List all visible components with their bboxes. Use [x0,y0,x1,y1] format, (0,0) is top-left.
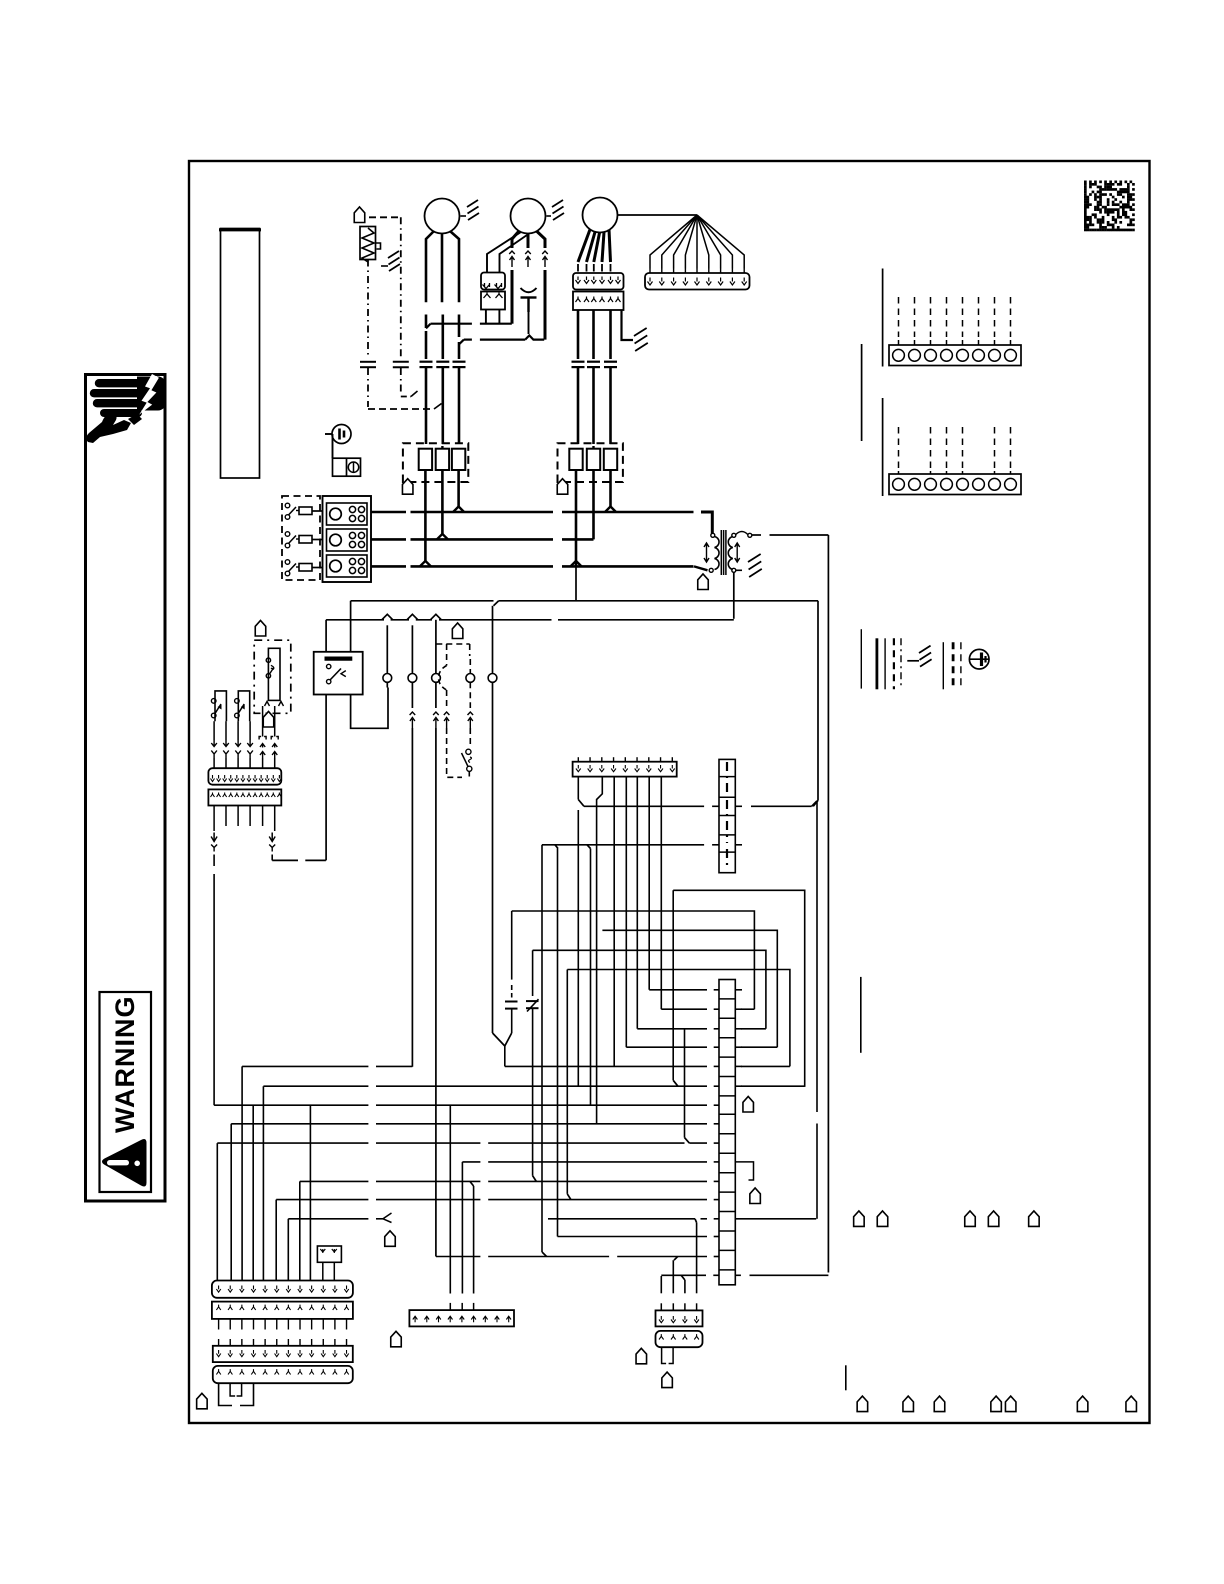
row y806 to strip [584,805,704,807]
warning inner box [100,992,152,1192]
flag above J2 [385,1231,396,1247]
legend low voltage wires [942,642,944,689]
transformer secondary terminals [732,533,736,537]
flag bottom-right below [662,1372,673,1388]
bottom flags row [857,1396,868,1412]
control line A drop right [817,601,819,801]
relay U-link lower [272,859,298,861]
rect wire U5 [567,970,790,1067]
contactor box [323,496,372,582]
flags above strip right [743,1097,754,1113]
terminal strip chain lower [719,980,735,1285]
row y1276 [661,1274,706,1276]
flag below transformer [698,574,709,590]
flag below interlock box [263,712,274,728]
flag above interlock box [255,621,266,637]
motor M1 wires [426,232,434,329]
wire A arrow [213,833,215,841]
contactor poles [327,503,368,525]
transformer secondary coil [728,537,733,570]
rect wire U2 [511,911,513,980]
flag below F2 [557,479,568,495]
transformer arrows [704,543,709,562]
right vertical x882 upper [882,269,884,367]
control line B [326,619,384,621]
row y1237 [558,1236,708,1238]
row y1143 [217,1142,368,1144]
transformer primary coil [715,537,720,570]
right vertical x882 lower [882,398,884,496]
cap break on dashed wire 2 [393,361,409,363]
motor M2 fan wires [512,231,519,248]
isolated vertical x845 [845,1365,847,1390]
row y1086 [263,1085,368,1087]
flag on control line B [452,623,463,639]
bottom-right lower wires [662,1347,667,1363]
dash-dot enclosure right wire [400,217,402,358]
bottom-middle connector J2 [409,1310,514,1326]
capacitor on drop x511 [511,985,513,998]
terminal strip chain upper [719,759,735,872]
row y845 from right [542,844,704,846]
svg-text:WARNING: WARNING [110,996,140,1134]
motor M3 fan wires [578,230,590,263]
vertical to bottom connector x450 [449,1105,451,1293]
row y1029 [637,1028,707,1030]
wire F arrow [271,833,273,841]
legend rectangle [221,229,260,479]
drop x590 [587,845,591,849]
fuses F1 [419,449,432,470]
legend line voltage wires [860,629,862,688]
row y1047 [626,1046,707,1048]
bus row L1 to transformer [701,512,712,534]
transformer secondary top wire [752,534,761,536]
heater resistor R-HTR [360,227,376,260]
M3 connector block [573,273,624,290]
interlock contacts [265,702,270,707]
J2 stubs [449,1303,451,1310]
M2 connector block [481,273,505,290]
J1 wires [577,777,579,800]
drop x542 [541,845,543,1252]
M3 pin stubs [577,264,579,272]
harness fan wires [650,215,697,269]
warning triangle [102,1139,147,1187]
dash-dot enclosure left wire [367,260,369,359]
ground at motor M2 [547,215,552,217]
link M1 to M2 block [426,324,431,329]
flag bottom-right left [636,1348,647,1364]
relay switch [327,664,331,668]
disconnect switches [285,503,290,508]
ground at motor M1 [461,215,467,217]
legend ground symbol [907,660,919,662]
left mesh verticals [241,1066,243,1280]
drop x555 [555,845,558,849]
warning label outer box [86,375,166,1202]
flag below J2 [391,1331,402,1347]
bottom-left connector block 4 [213,1366,353,1383]
M2 plug arrows [509,251,515,254]
cap break on dashed wire 1 [360,361,376,363]
Y merge caps [493,1033,505,1046]
row y990 [649,989,707,991]
row y1162 bracket right [735,1162,753,1180]
left connector block lower wires [225,806,227,827]
row y1199 [276,1199,368,1201]
lug wire [332,434,334,458]
row y1162 [462,1161,480,1163]
aux device box [333,458,361,476]
control line A [351,600,494,602]
row y1219 left with arrow [288,1218,368,1220]
datamatrix barcode [1084,181,1135,232]
rect wire U3 [602,930,777,1047]
right vertical x861 [861,344,863,441]
dash-dot enclosure bottom edge [368,408,434,410]
M3 lower wires [577,310,580,359]
circle3 wire corner at bottom [435,1256,437,1258]
legend earth symbol [969,649,989,669]
motor M2 [511,199,546,234]
bottom-left connector block 3 [213,1346,353,1362]
bottom-left bracket [219,1383,232,1405]
M2 connector leads [487,232,521,273]
cap breaks M1 wires [425,331,428,359]
left connector block 1 [208,768,281,785]
row y1105 [214,1104,368,1106]
heater tab [376,243,381,249]
bottom-left stubs [230,1384,235,1396]
interlock inner frame [268,648,280,700]
motor M1 [425,199,460,234]
circle terminal 5 [488,674,497,683]
transformer core [720,530,722,575]
left connector block 2 [208,789,281,805]
M3 stub to ground [622,310,634,340]
transformer T1 primary terminals [711,533,715,537]
vertical to bottom connector x473 [470,1181,474,1186]
disconnect dashed box [282,496,320,580]
arrow on wire 2 [410,712,416,715]
strip chain dash-dot marks upper [726,762,728,795]
bottom-right connector block 1 [656,1310,703,1326]
dash-dot branch [436,643,469,645]
terminal strip TB2 [889,474,1021,495]
motor M3 [583,198,618,233]
bottom-left connector block 2 [212,1302,353,1319]
circle terminal 2 [408,674,417,683]
thermal fuse on drop x532 [532,950,534,996]
ground lug [332,425,351,444]
bottom-right connector wires [660,1276,662,1293]
M2 capacitor [521,288,537,292]
dash-dot enclosure top edge [369,216,401,218]
rect wire U4 [533,950,766,1029]
door switch 1 [215,691,226,721]
row y1219 right [548,1218,695,1220]
flag above heater [354,207,365,223]
row y1066 [242,1065,368,1067]
isolated vertical x860 [860,977,862,1053]
mid flags row [854,1211,865,1227]
bottom-left connector block 1 [212,1281,353,1298]
bus row L3 [371,565,406,568]
relay outputs [325,695,327,861]
fuse block F2 dashed box [558,443,623,482]
relay box [314,652,363,695]
vertical to bottom connector x462 [461,1162,463,1294]
circle terminal 3 [432,674,441,683]
door switch 2 [238,691,249,721]
right riser x817 [816,801,818,1112]
row y1181 [300,1180,369,1182]
row y1257 [436,1256,480,1258]
warning hand-shock icon [95,379,141,387]
connector pin symbols row [213,721,215,740]
fuse block F1 dashed box [403,443,468,482]
motor M3 link to harness [618,214,698,216]
interlock dash-dot box [254,640,291,713]
flag bottom-left [197,1393,208,1409]
link M1 to M2 right [459,340,464,345]
border frame [189,161,1150,1423]
circle terminal 1 [383,674,392,683]
fuse leads right group [575,470,578,566]
bus row L2 [371,538,406,541]
transformer secondary bottom wire [733,572,735,619]
row y1124 [231,1123,368,1125]
circle terminal 4 [466,674,475,683]
ground near heater [381,265,388,267]
middle connector J1 [573,762,677,777]
rect wire U1 [673,890,805,1087]
small box cols 10-11 [317,1246,341,1262]
bottom-right connector block 2 [656,1331,703,1347]
arrow on wire 3 [433,712,439,715]
pressure switch [466,749,471,754]
relay heater bar [325,656,353,660]
block2-block3 wires [218,1319,220,1330]
fuses F2 [569,449,582,470]
interlock switch [266,658,270,662]
9-pin harness connector [645,273,750,290]
terminal strip TB1 [889,345,1021,366]
transformer ground [736,569,742,571]
bus row L1 [371,511,406,514]
M2 block lower wires [485,310,487,324]
row y1009 [661,1008,707,1010]
transformer jumper arc [736,532,748,535]
switch blade to transformer [694,566,708,570]
relay box feed wires [350,601,352,652]
fuse leads left group [424,470,427,562]
transformer secondary drop right [827,535,829,1273]
flag below F1 [402,479,413,495]
